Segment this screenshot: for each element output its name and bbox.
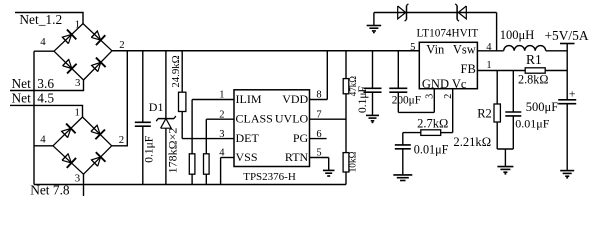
svg-text:Net: Net: [12, 91, 32, 106]
svg-text:D1: D1: [149, 100, 164, 114]
svg-text:Vin: Vin: [426, 43, 445, 57]
svg-text:UVLO: UVLO: [275, 112, 309, 126]
svg-text:2.7kΩ: 2.7kΩ: [417, 116, 448, 130]
svg-text:1: 1: [75, 106, 80, 118]
svg-text:3: 3: [75, 172, 80, 184]
svg-text:0.1μF: 0.1μF: [144, 136, 156, 163]
svg-text:Net_1.2: Net_1.2: [19, 12, 62, 27]
svg-text:RTN: RTN: [285, 150, 309, 164]
svg-text:CLASS: CLASS: [236, 112, 273, 126]
svg-text:4: 4: [219, 148, 225, 159]
svg-text:200μF: 200μF: [392, 94, 421, 106]
svg-text:VSS: VSS: [236, 150, 258, 164]
svg-text:3: 3: [75, 77, 80, 89]
svg-text:500μF: 500μF: [526, 100, 558, 114]
svg-text:ILIM: ILIM: [236, 92, 262, 106]
svg-text:R1: R1: [526, 52, 542, 67]
svg-text:4: 4: [40, 36, 46, 48]
svg-text:Net: Net: [12, 76, 32, 91]
svg-text:1: 1: [219, 90, 224, 101]
svg-text:DET: DET: [236, 131, 260, 145]
svg-text:10kΩ: 10kΩ: [349, 151, 359, 172]
svg-text:0.1μF: 0.1μF: [357, 86, 369, 113]
svg-text:TPS2376-H: TPS2376-H: [243, 171, 296, 183]
svg-text:1: 1: [75, 18, 80, 30]
svg-text:4: 4: [40, 134, 46, 146]
svg-text:24.9kΩ: 24.9kΩ: [170, 55, 182, 87]
svg-text:4: 4: [486, 42, 492, 53]
svg-text:1: 1: [486, 60, 491, 71]
svg-text:R2: R2: [477, 106, 492, 120]
svg-text:PG: PG: [293, 131, 309, 145]
svg-text:3.6: 3.6: [37, 76, 54, 91]
svg-text:7: 7: [316, 109, 321, 120]
svg-text:2: 2: [219, 109, 224, 120]
svg-text:2: 2: [119, 134, 124, 146]
svg-text:8: 8: [316, 90, 321, 101]
svg-text:Net 7.8: Net 7.8: [30, 183, 70, 198]
svg-text:VDD: VDD: [282, 92, 308, 106]
svg-text:178kΩ×2: 178kΩ×2: [166, 128, 180, 174]
svg-text:0.01μF: 0.01μF: [515, 116, 549, 130]
svg-text:100μH: 100μH: [500, 28, 534, 42]
svg-text:2.21kΩ: 2.21kΩ: [453, 135, 491, 149]
svg-text:3: 3: [425, 94, 436, 99]
svg-text:Vsw: Vsw: [453, 43, 476, 57]
svg-text:4.5: 4.5: [37, 91, 54, 106]
svg-text:LT1074HVIT: LT1074HVIT: [417, 27, 479, 39]
svg-text:+5V/5A: +5V/5A: [545, 28, 589, 43]
svg-text:GND Vc: GND Vc: [422, 77, 467, 91]
svg-text:5: 5: [410, 42, 415, 53]
svg-text:2.8kΩ: 2.8kΩ: [518, 73, 548, 87]
svg-text:+: +: [569, 87, 576, 101]
svg-text:3: 3: [219, 129, 224, 140]
svg-text:FB: FB: [461, 62, 476, 76]
svg-text:6: 6: [316, 129, 321, 140]
svg-text:2: 2: [443, 94, 454, 99]
svg-text:5: 5: [316, 148, 321, 159]
svg-text:2: 2: [119, 39, 124, 51]
svg-text:0.01μF: 0.01μF: [414, 142, 449, 156]
